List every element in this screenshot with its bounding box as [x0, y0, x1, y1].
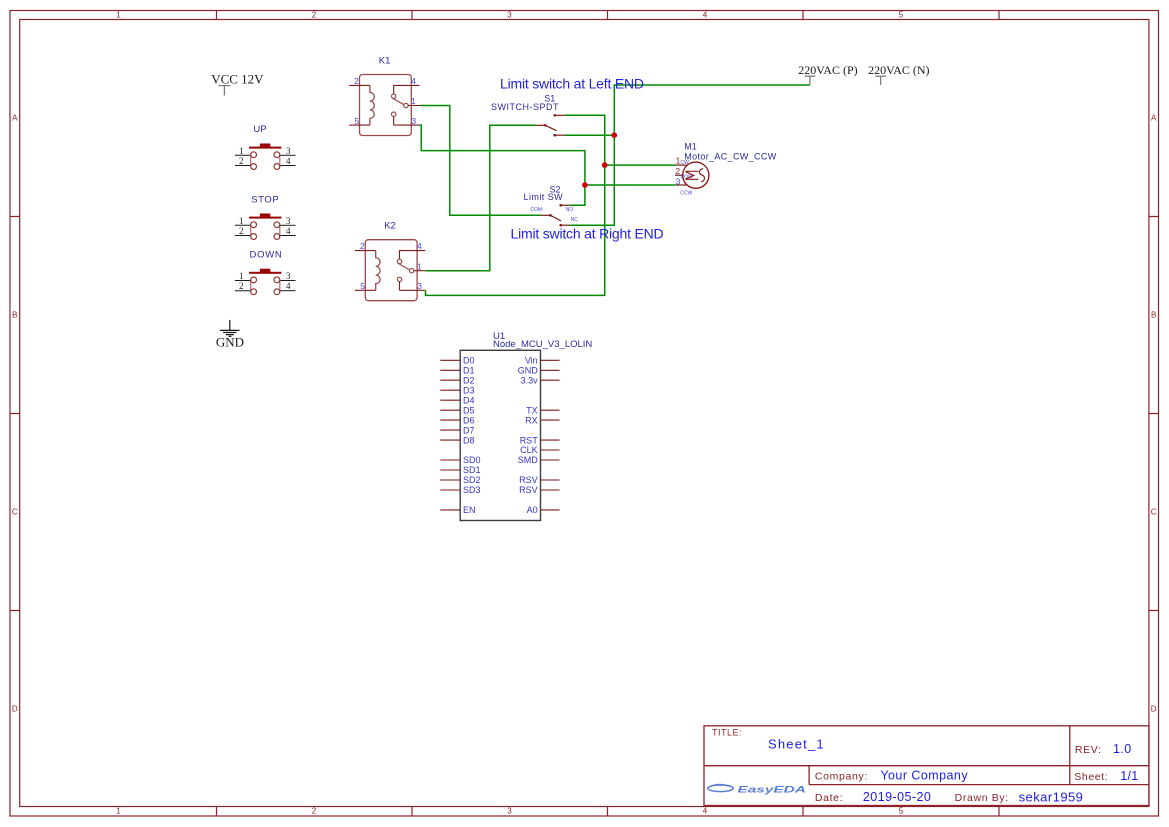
svg-text:RSV: RSV	[519, 475, 538, 485]
wire K2 pin1 to S1 COM	[426, 125, 537, 270]
wire K1 pin3 to S2 NO and M1 pin3	[419, 125, 585, 205]
S1 arm	[545, 125, 556, 130]
button cap	[249, 272, 281, 274]
S1 common lead and pole	[536, 124, 545, 126]
svg-text:2019-05-20: 2019-05-20	[863, 790, 931, 804]
switch contact NO	[392, 94, 396, 98]
pin 1 lead	[235, 154, 251, 156]
button cap	[249, 217, 281, 219]
svg-text:1.0: 1.0	[1113, 742, 1132, 756]
svg-text:D: D	[1151, 705, 1157, 714]
svg-text:220VAC (P): 220VAC (P)	[798, 63, 857, 77]
svg-text:sekar1959: sekar1959	[1019, 790, 1084, 805]
junction node M1 CCW net	[582, 182, 588, 188]
pin 2 lead	[675, 174, 684, 176]
relay K2	[355, 220, 426, 300]
contact posts	[251, 225, 280, 237]
svg-text:Sheet_1: Sheet_1	[768, 737, 825, 752]
svg-text:Drawn By:: Drawn By:	[955, 792, 1009, 804]
switch common contact	[410, 269, 414, 273]
svg-text:2: 2	[312, 807, 317, 816]
svg-text:1: 1	[116, 11, 121, 20]
svg-text:SD3: SD3	[463, 485, 481, 495]
svg-text:STOP: STOP	[251, 194, 279, 205]
switch contact NO	[397, 259, 401, 263]
svg-text:SMD: SMD	[518, 455, 539, 465]
pushbutton STOP	[235, 194, 296, 239]
pin 4 lead	[280, 235, 296, 237]
S2 COM lead and pole	[541, 214, 551, 216]
pin 2 lead	[355, 250, 376, 252]
svg-text:M1: M1	[684, 142, 697, 152]
motor body circle	[683, 162, 709, 188]
pin 4 lead	[280, 290, 296, 292]
switch S2 Limit SW	[524, 184, 579, 226]
pin 3 lead	[280, 280, 296, 282]
svg-text:1: 1	[239, 216, 244, 226]
title block	[704, 726, 1149, 806]
pin 2 lead	[235, 290, 251, 292]
pushbutton DOWN	[235, 250, 296, 295]
contact posts	[251, 280, 280, 292]
wire K2 pin3 to S1 top contact	[426, 115, 605, 295]
svg-text:Limit switch at Right END: Limit switch at Right END	[511, 226, 664, 242]
svg-text:2: 2	[239, 226, 244, 236]
svg-text:EasyEDA: EasyEDA	[738, 783, 806, 794]
S1 throw 1 contact and lead	[554, 114, 557, 117]
U1 right pin stubs	[541, 360, 560, 510]
relay body	[360, 75, 412, 136]
switch arm	[392, 98, 404, 105]
S2 NO contact and lead	[559, 204, 562, 207]
svg-text:RST: RST	[520, 435, 539, 445]
svg-text:Node_MCU_V3_LOLIN: Node_MCU_V3_LOLIN	[493, 339, 592, 350]
switch common contact	[404, 103, 408, 107]
svg-text:5: 5	[899, 11, 904, 20]
svg-text:K2: K2	[384, 220, 396, 231]
U1 right pin names	[518, 356, 539, 516]
svg-text:4: 4	[703, 807, 708, 816]
svg-text:DOWN: DOWN	[250, 250, 283, 261]
svg-text:SD1: SD1	[463, 465, 481, 475]
svg-text:NC: NC	[571, 217, 579, 223]
contact posts	[251, 155, 280, 167]
svg-text:SD0: SD0	[463, 455, 481, 465]
pin 4 lead	[280, 165, 296, 167]
pin 3 lead	[280, 224, 296, 226]
motor M1 Motor_AC_CW_CCW	[675, 142, 777, 197]
pin 2 lead	[235, 235, 251, 237]
svg-text:D8: D8	[463, 435, 475, 445]
svg-text:GND: GND	[518, 366, 539, 376]
S2 arm	[550, 215, 561, 221]
svg-text:4: 4	[703, 11, 708, 20]
U1 left pin names	[463, 356, 481, 516]
svg-text:GND: GND	[216, 335, 244, 350]
svg-text:B: B	[12, 311, 17, 320]
svg-text:VCC 12V: VCC 12V	[211, 72, 264, 87]
svg-text:2: 2	[360, 241, 365, 251]
pin 5 lead	[355, 289, 376, 291]
svg-text:220VAC (N): 220VAC (N)	[868, 63, 929, 77]
coil	[376, 251, 380, 291]
svg-text:3: 3	[507, 11, 512, 20]
svg-text:3.3v: 3.3v	[521, 375, 539, 385]
svg-text:3: 3	[507, 807, 512, 816]
svg-text:3: 3	[417, 281, 422, 291]
pin 2 lead	[235, 165, 251, 167]
wire branch to M1 pin1	[605, 164, 676, 166]
svg-text:5: 5	[354, 116, 359, 126]
svg-text:3: 3	[286, 216, 291, 226]
svg-text:TITLE:: TITLE:	[712, 728, 742, 738]
svg-text:1: 1	[239, 146, 244, 156]
svg-text:REV:: REV:	[1075, 744, 1102, 756]
IC U1 Node_MCU_V3_LOLIN	[460, 331, 592, 521]
pin 3 lead	[280, 154, 296, 156]
frame row labels left	[12, 114, 18, 714]
svg-text:4: 4	[411, 76, 416, 86]
svg-text:CCW: CCW	[680, 191, 692, 197]
svg-text:4: 4	[286, 156, 291, 166]
svg-text:RX: RX	[525, 415, 538, 425]
frame column labels bottom	[116, 807, 904, 816]
pin 2 lead	[349, 84, 370, 86]
svg-text:Sheet:: Sheet:	[1074, 771, 1108, 783]
frame row labels right	[1151, 114, 1157, 714]
svg-text:4: 4	[286, 226, 291, 236]
pushbutton UP	[235, 124, 296, 170]
svg-text:Limit switch at Left END: Limit switch at Left END	[500, 75, 644, 91]
pin 1 lead	[408, 105, 420, 107]
svg-text:NO: NO	[566, 207, 574, 213]
pin 1 lead	[235, 224, 251, 226]
svg-text:SD2: SD2	[463, 475, 481, 485]
svg-text:1: 1	[417, 261, 422, 271]
svg-text:D2: D2	[463, 375, 475, 385]
svg-text:D7: D7	[463, 425, 475, 435]
junction node S1-NC net	[612, 132, 618, 138]
power flag 220VAC (N)	[868, 63, 929, 85]
svg-text:D1: D1	[463, 366, 475, 376]
pin 3 lead	[394, 116, 420, 125]
pin 4 lead	[399, 251, 425, 260]
S2 NC contact and lead	[559, 224, 562, 227]
pin 1 lead	[414, 270, 426, 272]
switch S1 SWITCH-SPDT	[491, 94, 565, 137]
svg-text:D0: D0	[463, 356, 475, 366]
svg-text:K1: K1	[379, 55, 391, 66]
svg-text:COM: COM	[530, 207, 542, 213]
pin 3 lead	[676, 184, 688, 186]
svg-text:D4: D4	[463, 395, 475, 405]
pin 5 lead	[349, 124, 370, 126]
svg-text:SWITCH-SPDT: SWITCH-SPDT	[491, 102, 559, 112]
svg-text:3: 3	[286, 271, 291, 281]
svg-text:B: B	[1151, 311, 1156, 320]
svg-text:C: C	[1151, 508, 1157, 517]
svg-text:3: 3	[286, 146, 291, 156]
svg-text:3: 3	[411, 116, 416, 126]
svg-text:5: 5	[360, 281, 365, 291]
svg-text:1/1: 1/1	[1120, 769, 1138, 783]
svg-text:CLK: CLK	[520, 445, 538, 455]
svg-text:Your Company: Your Company	[880, 769, 968, 783]
svg-text:Vin: Vin	[525, 356, 538, 366]
svg-text:4: 4	[286, 281, 291, 291]
pin 1 lead	[235, 280, 251, 282]
U1 left pin stubs	[440, 360, 460, 510]
svg-text:2: 2	[354, 76, 359, 86]
pin 1 lead	[676, 164, 688, 166]
svg-text:1: 1	[239, 271, 244, 281]
relay K1	[349, 55, 420, 135]
wire K1 pin1 to S2 COM	[421, 106, 541, 216]
svg-text:D6: D6	[463, 415, 475, 425]
switch arm	[398, 263, 410, 270]
button cap	[249, 147, 281, 149]
svg-text:Motor_AC_CW_CCW: Motor_AC_CW_CCW	[684, 151, 776, 161]
pin 4 lead	[393, 85, 419, 94]
svg-text:D5: D5	[463, 405, 475, 415]
wire branch to M1 pin3	[585, 184, 676, 186]
coil	[370, 85, 374, 125]
svg-text:C: C	[12, 508, 18, 517]
svg-text:1: 1	[411, 96, 416, 106]
svg-text:5: 5	[899, 807, 904, 816]
svg-text:Company:: Company:	[815, 771, 868, 783]
svg-text:RSV: RSV	[519, 485, 538, 495]
pin 3 lead	[400, 282, 426, 291]
power flag VCC 12V	[211, 72, 264, 96]
S1 throw 2 contact and lead	[554, 134, 557, 137]
svg-text:D: D	[12, 705, 18, 714]
svg-text:1: 1	[116, 807, 121, 816]
svg-text:EN: EN	[463, 505, 476, 515]
svg-text:UP: UP	[253, 124, 266, 135]
svg-text:D3: D3	[463, 385, 475, 395]
svg-text:CW: CW	[680, 160, 689, 166]
junction node M1 CW net	[602, 162, 608, 168]
svg-text:4: 4	[417, 241, 422, 251]
wire S1 bottom contact to 220VAC P and S2 NC	[565, 85, 810, 225]
switch contact NC	[392, 112, 396, 116]
svg-text:Date:: Date:	[815, 792, 843, 804]
svg-text:A: A	[1151, 114, 1157, 123]
svg-text:2: 2	[239, 281, 244, 291]
svg-text:2: 2	[239, 156, 244, 166]
frame column labels top	[116, 11, 904, 20]
svg-text:2: 2	[312, 11, 317, 20]
ground GND	[216, 320, 244, 350]
EasyEDA logo	[708, 783, 806, 794]
U1 body	[460, 350, 540, 520]
svg-text:TX: TX	[526, 405, 538, 415]
svg-text:A0: A0	[527, 505, 538, 515]
svg-text:Limit SW: Limit SW	[524, 192, 564, 202]
svg-text:A: A	[12, 114, 18, 123]
power flag 220VAC (P)	[798, 63, 857, 85]
relay body	[365, 240, 417, 301]
switch contact NC	[397, 277, 401, 281]
